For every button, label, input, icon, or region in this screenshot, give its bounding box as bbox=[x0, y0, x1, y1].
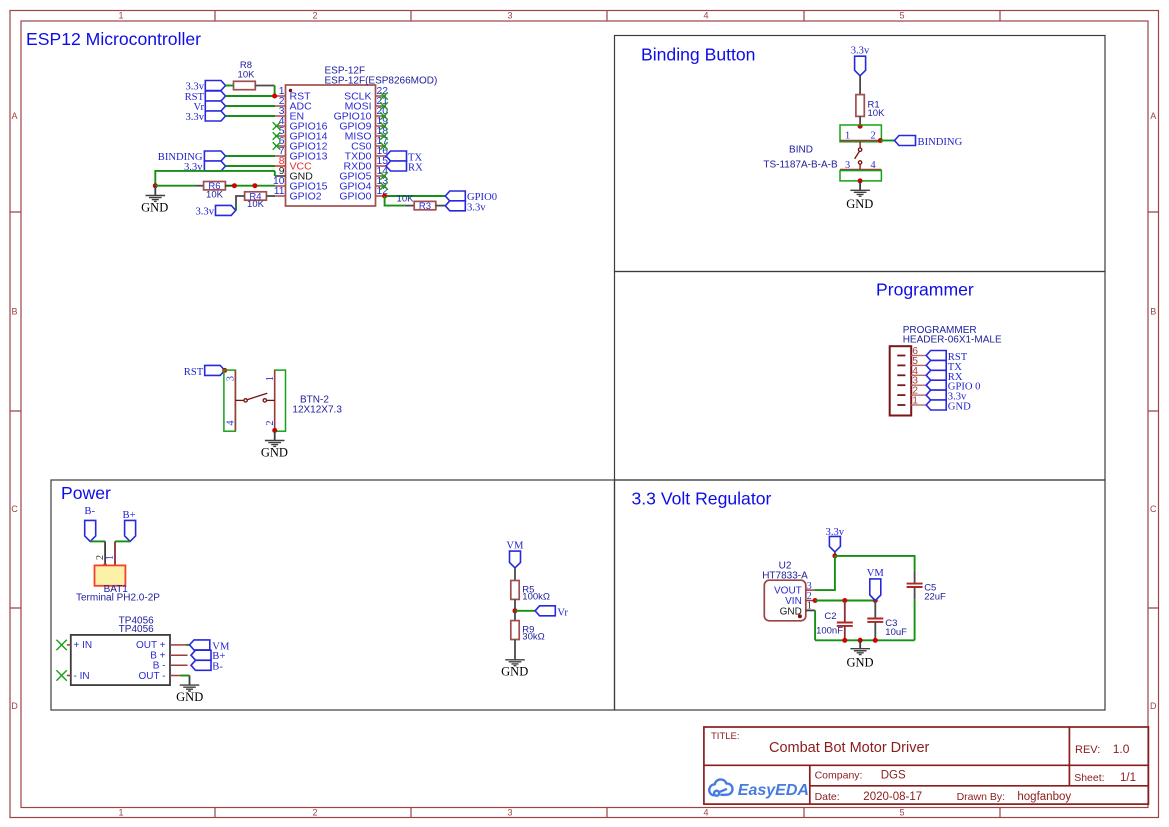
svg-text:100kΩ: 100kΩ bbox=[522, 592, 550, 603]
svg-text:2: 2 bbox=[95, 555, 106, 560]
svg-text:A: A bbox=[1150, 111, 1156, 121]
wire B+ to BAT1 pin1 bbox=[115, 540, 130, 542]
svg-text:3.3v: 3.3v bbox=[185, 82, 204, 93]
svg-text:D: D bbox=[11, 701, 18, 711]
wire junction to Vr flag bbox=[515, 610, 535, 612]
svg-text:OUT -: OUT - bbox=[138, 671, 165, 682]
capacitor C3 lead bottom bbox=[874, 622, 876, 640]
pin 1 dot inside chip bbox=[289, 89, 292, 92]
op-amp U? ESP-12F chip body bbox=[286, 85, 376, 206]
svg-text:GND: GND bbox=[141, 201, 168, 215]
svg-text:TITLE:: TITLE: bbox=[711, 731, 740, 742]
net flag GPIO 0 bbox=[926, 380, 980, 393]
svg-text:3.3v: 3.3v bbox=[851, 46, 870, 57]
net flag B- bbox=[191, 660, 223, 672]
wire C5 bottom lead bbox=[914, 587, 916, 600]
net flag RST bbox=[926, 351, 968, 364]
left pin names bbox=[290, 91, 328, 203]
pin stubs right bbox=[170, 645, 188, 676]
ground symbol (regulator) bbox=[850, 649, 870, 655]
net flag TX bbox=[926, 360, 962, 373]
svg-text:Terminal PH2.0-2P: Terminal PH2.0-2P bbox=[76, 593, 160, 604]
wire Vr to pin 2 bbox=[226, 105, 276, 107]
left pin numbers bbox=[273, 86, 285, 197]
no-connect X marks left pins 4,5,6 bbox=[273, 122, 281, 150]
column tick top bbox=[215, 11, 1000, 22]
svg-text:10K: 10K bbox=[247, 199, 265, 210]
net flag VM (divider) bbox=[506, 541, 524, 568]
svg-text:Vr: Vr bbox=[557, 607, 568, 618]
svg-text:GPIO2: GPIO2 bbox=[290, 191, 322, 203]
svg-text:2: 2 bbox=[265, 420, 276, 425]
svg-text:22uF: 22uF bbox=[924, 592, 946, 603]
ground symbol (TP4056) bbox=[180, 685, 200, 691]
svg-text:HEADER-06X1-MALE: HEADER-06X1-MALE bbox=[903, 335, 1002, 346]
wire R6 to pin 10 bbox=[225, 185, 234, 187]
wire 3.3v to pin 8 bbox=[226, 165, 276, 167]
net flag RX bbox=[926, 370, 963, 383]
net flag 3.3v (top, to R8) bbox=[185, 81, 225, 93]
section box Power bbox=[51, 480, 615, 710]
net flag 3.3v bbox=[926, 390, 967, 403]
junction bottom bbox=[858, 178, 863, 183]
wire R5 to junction bbox=[514, 599, 516, 610]
svg-text:30kΩ: 30kΩ bbox=[522, 632, 544, 643]
resistor R5 bbox=[511, 581, 550, 603]
pin circle at BAT1 pin2 bbox=[103, 564, 107, 568]
svg-text:RST: RST bbox=[184, 367, 204, 378]
svg-text:1/1: 1/1 bbox=[1120, 772, 1136, 784]
section box Programmer bbox=[615, 272, 1106, 481]
wire C5 top lead bbox=[914, 571, 916, 583]
net flag GND bbox=[926, 400, 971, 413]
section box Binding Button bbox=[615, 36, 1106, 272]
wire to R6 bbox=[196, 185, 204, 187]
svg-text:GPIO0: GPIO0 bbox=[339, 191, 371, 203]
pin stub VOUT bbox=[806, 589, 815, 591]
svg-text:2: 2 bbox=[871, 131, 876, 142]
net flag 3.3v bbox=[826, 527, 845, 552]
svg-text:4: 4 bbox=[226, 420, 237, 425]
svg-text:10K: 10K bbox=[868, 108, 886, 119]
svg-text:GND: GND bbox=[846, 197, 873, 211]
net flag VM bbox=[867, 568, 885, 601]
switch BIND bottom pin line bbox=[840, 169, 881, 171]
svg-text:Binding Button: Binding Button bbox=[641, 45, 755, 65]
svg-text:Sheet:: Sheet: bbox=[1074, 772, 1104, 784]
svg-text:Power: Power bbox=[61, 483, 111, 503]
svg-text:10K: 10K bbox=[238, 70, 256, 81]
svg-text:ESP12 Microcontroller: ESP12 Microcontroller bbox=[26, 29, 201, 49]
svg-text:1: 1 bbox=[912, 396, 918, 407]
junction 3.3v bbox=[832, 553, 837, 558]
switch BIND bottom body rect bbox=[840, 171, 881, 181]
svg-text:1: 1 bbox=[845, 131, 850, 142]
regulator U2 body bbox=[764, 580, 806, 621]
switch contact bbox=[855, 142, 862, 170]
section box 3.3 Volt Regulator bbox=[615, 480, 1106, 710]
svg-text:C2: C2 bbox=[824, 611, 836, 622]
svg-text:3.3v: 3.3v bbox=[467, 202, 486, 213]
wire R4 to pin 11 bbox=[266, 195, 275, 197]
svg-text:DGS: DGS bbox=[881, 770, 906, 782]
net flag BINDING bbox=[895, 136, 963, 149]
pin stubs left bbox=[67, 645, 71, 676]
svg-text:5: 5 bbox=[899, 808, 904, 818]
resistor R9 bbox=[511, 621, 545, 643]
wire 3.3v to pin 3 bbox=[226, 115, 276, 117]
svg-text:3.3v: 3.3v bbox=[195, 206, 214, 217]
ground symbol (ESP) bbox=[146, 196, 166, 202]
wire VIN to VM bbox=[815, 600, 875, 602]
junction at button pin1 bbox=[858, 124, 863, 129]
svg-text:2: 2 bbox=[312, 11, 317, 21]
junction GND bbox=[153, 183, 158, 188]
svg-text:3: 3 bbox=[226, 376, 237, 381]
svg-text:VM: VM bbox=[506, 541, 524, 552]
junction Vr bbox=[513, 608, 518, 613]
pin 9 stub (GND, black) bbox=[275, 175, 286, 177]
net flag TX (pin 16) bbox=[386, 151, 422, 164]
capacitor C2 bbox=[837, 623, 853, 626]
svg-text:3: 3 bbox=[507, 11, 512, 21]
wire VM to R5 bbox=[514, 568, 516, 581]
svg-text:GND: GND bbox=[948, 402, 971, 413]
svg-text:VOUT: VOUT bbox=[774, 586, 802, 597]
svg-text:2020-08-17: 2020-08-17 bbox=[863, 791, 922, 803]
junction C2 top bbox=[842, 598, 847, 603]
net flag VM bbox=[190, 640, 230, 653]
right pin numbers bbox=[377, 86, 389, 197]
wire down and right to R3 bbox=[385, 196, 405, 206]
net flag 3.3v (top) bbox=[851, 46, 870, 76]
junction rail gnd bbox=[858, 638, 863, 643]
header pin numbers bbox=[912, 346, 918, 407]
resistor R1 bbox=[856, 95, 885, 119]
svg-text:A: A bbox=[11, 111, 17, 121]
net flag RST bbox=[185, 91, 226, 103]
net flag B- bbox=[84, 506, 95, 542]
svg-text:GPIO0: GPIO0 bbox=[467, 192, 497, 203]
ground rail bbox=[815, 639, 915, 641]
battery BAT1 body bbox=[95, 565, 126, 585]
svg-text:B-: B- bbox=[212, 661, 223, 672]
junction pin10 line bbox=[252, 183, 257, 188]
svg-text:B: B bbox=[11, 307, 17, 317]
svg-text:TS-1187A-B-A-B: TS-1187A-B-A-B bbox=[763, 160, 838, 171]
svg-text:1: 1 bbox=[105, 555, 116, 560]
wire BINDING to pin 7 bbox=[226, 155, 276, 157]
capacitor C5 bbox=[907, 584, 923, 587]
title block frame bbox=[704, 727, 1149, 804]
svg-text:Combat Bot Motor Driver: Combat Bot Motor Driver bbox=[769, 740, 930, 756]
svg-text:4: 4 bbox=[871, 160, 876, 171]
svg-text:RX: RX bbox=[408, 163, 423, 174]
svg-text:10K: 10K bbox=[397, 193, 415, 204]
svg-text:3: 3 bbox=[507, 808, 512, 818]
svg-text:TP4056: TP4056 bbox=[119, 624, 154, 635]
resistor R6 bbox=[204, 181, 226, 200]
connector J1 header body bbox=[890, 346, 912, 415]
module U1 TP4056 body bbox=[71, 635, 170, 685]
ground symbol (divider) bbox=[505, 660, 525, 666]
svg-text:D: D bbox=[1150, 701, 1157, 711]
svg-text:Programmer: Programmer bbox=[876, 280, 974, 300]
ground symbol (binding) bbox=[850, 190, 870, 196]
wire R1 to button bbox=[859, 116, 861, 126]
capacitor C2 lead top bbox=[844, 601, 846, 623]
wire 3.3v flag down bbox=[834, 552, 836, 556]
svg-text:1: 1 bbox=[265, 376, 276, 381]
wire R9 to ground bbox=[514, 640, 516, 660]
column tick bottom bbox=[215, 808, 1000, 818]
junction rail C3 bbox=[873, 638, 878, 643]
resistor R4 bbox=[245, 191, 267, 210]
wire OUT- to ground bbox=[180, 675, 190, 677]
wire rail to ground bbox=[859, 640, 861, 648]
svg-text:REV:: REV: bbox=[1075, 744, 1100, 756]
net flag 3.3v (right of R3) bbox=[445, 201, 486, 214]
switch contact bbox=[235, 393, 274, 402]
svg-text:GND: GND bbox=[846, 656, 873, 670]
switch BIND top body rect bbox=[840, 125, 881, 142]
svg-text:B: B bbox=[1150, 307, 1156, 317]
wire pin 12 to GPIO0 flag bbox=[386, 195, 445, 197]
wire pin2 to BINDING flag bbox=[880, 140, 894, 142]
svg-text:5: 5 bbox=[899, 11, 904, 21]
resistor R3 bbox=[397, 193, 436, 212]
svg-text:+ IN: + IN bbox=[74, 640, 93, 651]
no-connect X on -IN bbox=[56, 670, 66, 680]
svg-text:100nF: 100nF bbox=[816, 625, 843, 636]
svg-text:Date:: Date: bbox=[815, 791, 840, 803]
svg-text:Drawn By:: Drawn By: bbox=[957, 791, 1005, 803]
junction RST-pin3 bbox=[222, 368, 227, 373]
svg-text:12X12X7.3: 12X12X7.3 bbox=[292, 405, 342, 416]
wire R3 to 3.3v flag bbox=[436, 205, 446, 207]
wire down to pin 1 bbox=[274, 86, 276, 97]
svg-text:BIND: BIND bbox=[789, 145, 813, 156]
ground symbol (reset btn) bbox=[265, 441, 285, 447]
svg-text:10K: 10K bbox=[206, 190, 224, 201]
switch BTN1 right pin line bbox=[274, 370, 276, 430]
net flag RX (pin 15) bbox=[386, 161, 423, 174]
resistor R8 bbox=[234, 60, 256, 90]
svg-text:C: C bbox=[11, 504, 18, 514]
switch BTN1 left body rect bbox=[224, 370, 236, 431]
right pin names bbox=[334, 91, 372, 203]
wire GND pin down bbox=[814, 610, 816, 640]
wire pin 9 GND jog bbox=[274, 171, 276, 176]
svg-text:VIN: VIN bbox=[785, 596, 802, 607]
no-connect X on +IN bbox=[56, 640, 66, 650]
svg-text:HT7833-A: HT7833-A bbox=[762, 570, 808, 581]
svg-text:10uF: 10uF bbox=[885, 627, 907, 638]
switch BTN1 right body rect bbox=[275, 370, 286, 431]
svg-text:11: 11 bbox=[274, 186, 285, 197]
net flag B+ bbox=[123, 510, 136, 541]
svg-text:ESP-12F(ESP8266MOD): ESP-12F(ESP8266MOD) bbox=[325, 76, 438, 87]
wire OUT+ to VM flag bbox=[186, 644, 190, 646]
wire to ground bbox=[859, 181, 861, 190]
svg-text:2: 2 bbox=[312, 808, 317, 818]
junction rail C2 bbox=[842, 638, 847, 643]
no-connect X marks right pins 22-17,14,13 bbox=[380, 92, 388, 190]
svg-text:GND: GND bbox=[261, 445, 288, 459]
right pin stubs bbox=[376, 96, 387, 196]
svg-text:R3: R3 bbox=[419, 201, 431, 212]
svg-text:BINDING: BINDING bbox=[918, 137, 963, 148]
svg-text:1: 1 bbox=[118, 808, 123, 818]
svg-text:- IN: - IN bbox=[74, 671, 90, 682]
wire B- to BAT1 pin2 bbox=[90, 540, 105, 542]
capacitor C3 bbox=[867, 619, 883, 622]
svg-text:3.3 Volt Regulator: 3.3 Volt Regulator bbox=[632, 489, 772, 509]
junction pin1 bbox=[272, 94, 277, 99]
wire pin10 run bbox=[155, 185, 195, 187]
pin stub VIN bbox=[806, 600, 814, 602]
wire 3.3v to R8 bbox=[226, 85, 234, 87]
wire R4 left to 3.3v flag bbox=[236, 196, 245, 210]
wire GND run to left bbox=[155, 171, 274, 186]
svg-text:3: 3 bbox=[845, 160, 850, 171]
junction R6 right bbox=[232, 183, 237, 188]
SECTION BOXES bbox=[51, 36, 1105, 711]
junction VIN bbox=[813, 598, 818, 603]
wire GND stub down bbox=[154, 186, 156, 196]
row tick left bbox=[10, 212, 21, 608]
junction pin 12 bbox=[382, 194, 387, 199]
header pin lines bbox=[911, 356, 926, 406]
svg-text:1.0: 1.0 bbox=[1113, 742, 1130, 756]
capacitor C3 lead top bbox=[874, 601, 876, 619]
row tick right bbox=[1148, 212, 1159, 608]
switch BTN1 left pin line bbox=[234, 370, 236, 430]
svg-text:3.3v: 3.3v bbox=[185, 112, 204, 123]
svg-text:EasyEDA: EasyEDA bbox=[738, 782, 809, 799]
net flag GPIO0 bbox=[445, 191, 497, 203]
net flag 3.3v (pin 3) bbox=[185, 111, 225, 123]
svg-text:1: 1 bbox=[118, 11, 123, 21]
pin 8 stub (VCC, red) bbox=[275, 165, 286, 167]
svg-text:VM: VM bbox=[867, 568, 885, 579]
pin1 dot inside body bbox=[798, 614, 802, 618]
wire RST flag to pin 1 bbox=[226, 95, 276, 97]
net flag RST bbox=[184, 365, 225, 378]
wire 3.3v rail right to C5 bbox=[835, 556, 915, 571]
header pin dashes inside bbox=[897, 356, 905, 406]
svg-text:hogfanboy: hogfanboy bbox=[1017, 791, 1071, 803]
junction pin 2 to gnd bbox=[272, 428, 277, 433]
wire GND pin L bbox=[806, 609, 815, 611]
junction VM bottom bbox=[873, 598, 878, 603]
net flag Vr bbox=[193, 101, 225, 113]
svg-text:4: 4 bbox=[703, 11, 708, 21]
svg-text:GND: GND bbox=[176, 690, 203, 704]
capacitor C2 lead bottom bbox=[844, 626, 846, 640]
wire 3.3v down to VOUT bbox=[814, 556, 835, 590]
net flag BINDING (pin 7) bbox=[158, 151, 226, 163]
left pin stubs bbox=[275, 96, 286, 196]
net flag 3.3v (below R4) bbox=[195, 205, 235, 217]
svg-text:4: 4 bbox=[703, 808, 708, 818]
svg-text:Company:: Company: bbox=[815, 770, 863, 782]
svg-text:GND: GND bbox=[501, 665, 528, 679]
net flag Vr bbox=[535, 606, 568, 619]
wire junction to R9 bbox=[514, 611, 516, 621]
svg-text:B+: B+ bbox=[123, 510, 136, 521]
svg-text:C: C bbox=[1150, 504, 1157, 514]
svg-text:B-: B- bbox=[84, 506, 95, 517]
wire R8 to pin1 corner bbox=[255, 85, 274, 87]
junction pin 2 bbox=[878, 138, 883, 143]
wire to ground bbox=[274, 430, 276, 440]
EasyEDA logo cloud bbox=[709, 779, 732, 795]
wire flag to R1 bbox=[859, 76, 861, 95]
net flag 3.3v (pin 8 VCC) bbox=[184, 161, 226, 173]
net flag B+ bbox=[191, 650, 225, 662]
switch BIND top pin line bbox=[840, 140, 881, 142]
